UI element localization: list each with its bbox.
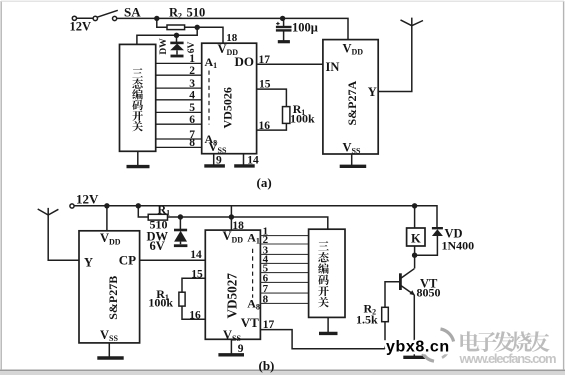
svg-text:510: 510 <box>187 6 206 20</box>
svg-text:8: 8 <box>256 303 260 312</box>
svg-text:V: V <box>218 42 227 56</box>
svg-text:V: V <box>343 42 352 56</box>
svg-text:IN: IN <box>326 60 340 74</box>
svg-text:(b): (b) <box>259 358 275 373</box>
svg-text:1.5k: 1.5k <box>356 313 378 327</box>
svg-text:DO: DO <box>235 54 255 69</box>
svg-text:14: 14 <box>190 249 202 261</box>
svg-text:SA: SA <box>124 4 141 19</box>
svg-text:V: V <box>223 229 232 243</box>
svg-text:8: 8 <box>263 294 269 306</box>
svg-text:www.elecfans.com: www.elecfans.com <box>459 351 557 366</box>
svg-text:5: 5 <box>189 102 195 114</box>
svg-text:V: V <box>209 140 218 154</box>
svg-text:6V: 6V <box>187 41 197 53</box>
svg-text:15: 15 <box>191 269 203 281</box>
svg-text:SS: SS <box>109 334 118 343</box>
svg-text:100k: 100k <box>290 112 315 126</box>
svg-text:1: 1 <box>213 61 217 70</box>
svg-text:1N400: 1N400 <box>442 238 475 252</box>
svg-text:V: V <box>100 328 109 342</box>
svg-text:16: 16 <box>189 309 201 321</box>
svg-text:(a): (a) <box>257 175 272 190</box>
svg-text:S&P27A: S&P27A <box>345 81 359 126</box>
svg-text:1: 1 <box>256 237 260 246</box>
svg-text:DD: DD <box>232 235 244 244</box>
svg-text:100μ: 100μ <box>292 21 318 35</box>
svg-text:6: 6 <box>189 114 195 126</box>
svg-text:2: 2 <box>178 12 182 21</box>
svg-text:VD5027: VD5027 <box>225 273 240 319</box>
svg-text:DW: DW <box>159 38 169 55</box>
svg-text:DD: DD <box>109 237 121 246</box>
svg-text:S&P27B: S&P27B <box>106 276 120 320</box>
svg-text:V: V <box>100 231 109 245</box>
svg-text:2: 2 <box>189 65 195 77</box>
svg-text:1: 1 <box>166 209 170 218</box>
svg-text:3: 3 <box>189 78 195 90</box>
svg-text:12V: 12V <box>70 19 92 33</box>
svg-text:6V: 6V <box>150 239 165 253</box>
svg-text:K: K <box>411 231 421 245</box>
svg-text:Y: Y <box>368 85 377 99</box>
svg-text:8050: 8050 <box>417 286 441 300</box>
svg-text:100k: 100k <box>148 296 173 310</box>
svg-text:Y: Y <box>84 256 93 270</box>
svg-text:12V: 12V <box>76 192 99 207</box>
svg-text:CP: CP <box>119 252 136 267</box>
svg-text:SS: SS <box>232 334 241 343</box>
svg-text:18: 18 <box>226 32 238 44</box>
svg-text:DD: DD <box>352 48 364 57</box>
svg-text:VT: VT <box>241 315 259 330</box>
svg-text:V: V <box>343 140 352 154</box>
svg-text:1: 1 <box>189 53 195 65</box>
svg-text:ybx8.cn: ybx8.cn <box>386 339 450 356</box>
svg-text:4: 4 <box>189 90 195 102</box>
svg-text:8: 8 <box>189 137 195 149</box>
svg-text:VD5026: VD5026 <box>221 87 235 128</box>
svg-text:17: 17 <box>263 319 275 331</box>
svg-text:SS: SS <box>352 147 361 156</box>
